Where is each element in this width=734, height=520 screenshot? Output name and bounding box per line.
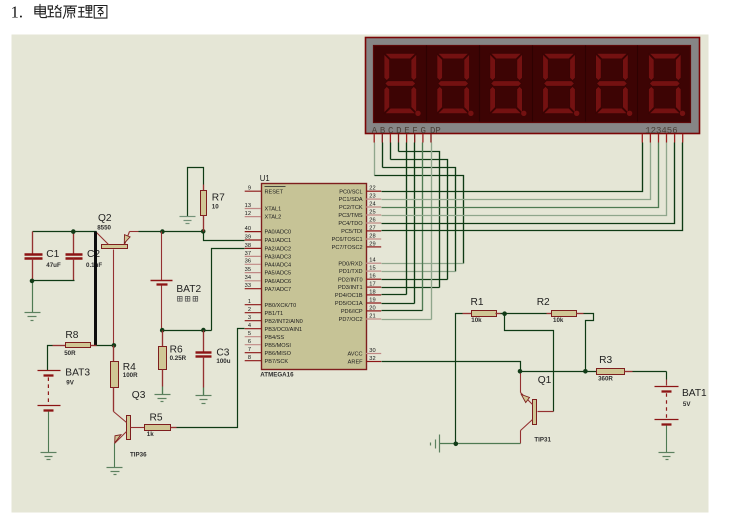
wire: display segment D to MCU PD3 <box>382 143 440 288</box>
svg-text:19: 19 <box>369 297 375 303</box>
ground under BAT1 <box>659 453 675 460</box>
display segment pin labels ABCDEFG DP <box>372 126 441 136</box>
node dot BAT2 top <box>160 229 165 234</box>
svg-text:PA4/ADC4: PA4/ADC4 <box>265 262 292 268</box>
svg-text:0.25R: 0.25R <box>170 355 187 362</box>
svg-text:50R: 50R <box>64 350 76 357</box>
svg-text:PB3/OC0/AIN1: PB3/OC0/AIN1 <box>265 327 303 333</box>
svg-text:1: 1 <box>248 299 251 305</box>
svg-text:RESET: RESET <box>265 189 284 195</box>
U1 RESET overline <box>265 186 286 188</box>
svg-text:R8: R8 <box>65 330 78 341</box>
svg-text:38: 38 <box>245 243 251 249</box>
svg-text:23: 23 <box>369 194 375 200</box>
display cell divider 5 <box>637 46 639 122</box>
ground under R6 <box>155 395 171 402</box>
ground under C3 <box>196 396 212 404</box>
svg-text:XTAL1: XTAL1 <box>265 207 282 213</box>
7-segment digit 6 <box>649 53 686 116</box>
node dot R8/R4/Q2 base <box>112 343 117 348</box>
resistor R6 <box>159 331 167 395</box>
U1 left pin stubs <box>245 191 261 361</box>
node dot BAT2 bottom / R6 top <box>160 328 165 333</box>
svg-text:R5: R5 <box>150 413 163 424</box>
svg-text:9: 9 <box>248 186 251 192</box>
svg-text:C2: C2 <box>87 249 100 260</box>
svg-text:BAT2: BAT2 <box>176 284 201 295</box>
transistor Q1 (NPN TIP31) <box>521 374 537 444</box>
ground under BAT3 <box>41 453 57 460</box>
svg-text:PA3/ADC3: PA3/ADC3 <box>265 255 292 261</box>
svg-text:R1: R1 <box>471 297 484 308</box>
svg-text:PA0/ADC0: PA0/ADC0 <box>265 230 292 236</box>
node dot C2 top on rail <box>71 229 76 234</box>
svg-text:32: 32 <box>369 356 375 362</box>
svg-text:1k: 1k <box>147 431 154 438</box>
svg-text:34: 34 <box>245 275 251 281</box>
svg-text:PC3/TMS: PC3/TMS <box>338 213 363 219</box>
node dot R7 bottom <box>201 229 206 234</box>
svg-text:PB7/SCK: PB7/SCK <box>265 359 289 365</box>
wire: display segment B to MCU PD1 <box>382 143 456 272</box>
U1 right pin stubs <box>366 191 381 361</box>
node dot R2 drop on AREF line <box>583 369 588 374</box>
svg-text:37: 37 <box>245 251 251 257</box>
node dot R1/R2 junction <box>502 311 507 316</box>
svg-text:30: 30 <box>369 348 375 354</box>
svg-text:TIP31: TIP31 <box>534 437 551 444</box>
7-segment digit 2 <box>437 53 474 116</box>
wire: display segment G to MCU PD6 <box>382 143 423 311</box>
svg-text:24: 24 <box>369 201 375 207</box>
svg-text:PB2/INT2/AIN0: PB2/INT2/AIN0 <box>265 319 303 325</box>
display cell divider 2 <box>479 46 481 122</box>
node dot C1 bottom <box>30 279 35 284</box>
svg-text:XTAL2: XTAL2 <box>265 215 282 221</box>
capacitor C3 <box>196 331 212 396</box>
U1 left pin numbers <box>245 186 251 362</box>
node dot ground/R1 riser <box>454 442 459 447</box>
svg-text:18: 18 <box>369 289 375 295</box>
svg-text:35: 35 <box>245 267 251 273</box>
svg-text:PC2/TCK: PC2/TCK <box>339 205 363 211</box>
svg-text:10k: 10k <box>471 317 482 324</box>
svg-text:PA5/ADC5: PA5/ADC5 <box>265 271 292 277</box>
wire: rail jog to MCU pin 39 (PA1) <box>204 232 245 241</box>
7-segment digit 1 <box>384 53 421 116</box>
svg-text:PD6/ICP: PD6/ICP <box>341 309 363 315</box>
transistor Q2 (PNP 8550) <box>97 232 139 346</box>
wire: R8 right to R4/Q2-base node <box>97 345 114 347</box>
ground under C1/C2 <box>25 313 41 321</box>
svg-text:Q2: Q2 <box>98 213 112 224</box>
svg-text:AREF: AREF <box>348 360 364 366</box>
svg-text:25: 25 <box>369 209 375 215</box>
BAT2 value (chinese: lithium battery) <box>178 297 198 302</box>
svg-text:BAT1: BAT1 <box>682 388 707 399</box>
svg-text:28: 28 <box>369 233 375 239</box>
display cell divider 1 <box>426 46 428 122</box>
7-segment digit 3 <box>490 53 527 116</box>
U1 right pin numbers <box>369 186 375 362</box>
svg-text:100R: 100R <box>123 372 138 379</box>
battery BAT3 <box>38 371 61 453</box>
svg-text:8: 8 <box>248 355 251 361</box>
svg-text:13: 13 <box>245 203 251 209</box>
wire: riser from BAT2 node up to MCU pin 38 (PA2) <box>212 249 245 331</box>
wire: left supply rail (C1/C2 top to Q2 collector node) <box>33 231 97 233</box>
U1 right pin names <box>332 189 364 365</box>
7-segment digit 4 <box>543 53 580 116</box>
svg-text:C3: C3 <box>216 347 229 358</box>
R7 top bracket wire to ground <box>188 168 204 217</box>
svg-text:10: 10 <box>212 204 219 211</box>
svg-text:PB0/XCK/T0: PB0/XCK/T0 <box>265 303 297 309</box>
svg-text:ATMEGA16: ATMEGA16 <box>260 372 294 379</box>
resistor R2 <box>505 311 584 317</box>
svg-text:PC5/TDI: PC5/TDI <box>341 229 363 235</box>
7-segment digit 5 <box>596 53 633 116</box>
node dot Q1 emitter on AREF line <box>518 369 523 374</box>
svg-text:R2: R2 <box>537 297 550 308</box>
svg-text:9V: 9V <box>66 380 74 387</box>
svg-text:PB6/MISO: PB6/MISO <box>265 351 292 357</box>
wire: R1 left corner down to ground rail <box>456 314 463 444</box>
display inner dark panel <box>374 46 691 123</box>
resistor R7 <box>201 185 207 232</box>
svg-text:22: 22 <box>369 186 375 192</box>
wire: BAT2 minus node horizontal (to R6, C3, riser) <box>162 330 212 332</box>
svg-text:U1: U1 <box>260 174 270 183</box>
svg-text:10k: 10k <box>553 317 564 324</box>
svg-text:PA1/ADC1: PA1/ADC1 <box>265 238 292 244</box>
svg-text:BAT3: BAT3 <box>65 367 90 378</box>
svg-text:PA2/ADC2: PA2/ADC2 <box>265 247 292 253</box>
7-segment display DISP1 outer frame <box>366 38 700 134</box>
svg-text:5V: 5V <box>683 401 691 408</box>
ground wire bottom right <box>440 443 521 445</box>
wire: display digit pin 4 to MCU PC3 <box>382 143 667 216</box>
svg-text:PD0/RXD: PD0/RXD <box>338 261 362 267</box>
svg-text:PC0/SCL: PC0/SCL <box>339 189 362 195</box>
svg-text:R6: R6 <box>170 344 183 355</box>
display cell divider 4 <box>585 46 587 122</box>
resistor R8 <box>53 343 97 348</box>
wire: display segment F to MCU PD5 <box>382 143 415 304</box>
svg-text:PD5/OC1A: PD5/OC1A <box>335 301 363 307</box>
wire: display digit pin 2 to MCU PC1 <box>382 143 651 200</box>
svg-text:16: 16 <box>369 274 375 280</box>
display cell divider 3 <box>532 46 534 122</box>
svg-text:33: 33 <box>245 283 251 289</box>
svg-text:36: 36 <box>245 259 251 265</box>
title chinese characters 电路原理图 (hand-drawn strokes) <box>35 4 107 18</box>
svg-text:PC6/TOSC1: PC6/TOSC1 <box>332 237 363 243</box>
battery BAT1 <box>655 372 679 453</box>
ground under R7 bracket <box>180 217 196 224</box>
svg-text:AVCC: AVCC <box>347 352 362 358</box>
wire: display segment C to MCU PD2 <box>382 143 448 280</box>
wire: display digit pin 3 to MCU PC2 <box>382 143 659 208</box>
svg-text:R4: R4 <box>123 362 136 373</box>
resistor R3 <box>597 369 667 375</box>
svg-text:Q1: Q1 <box>538 375 552 386</box>
svg-text:20: 20 <box>369 305 375 311</box>
display segment pin stubs <box>374 134 431 143</box>
svg-text:PA6/ADC6: PA6/ADC6 <box>265 279 292 285</box>
MCU U1 ATMEGA16 body <box>262 184 367 370</box>
wire: display segment E to MCU PD4 <box>382 143 407 295</box>
svg-text:PD4/OC1B: PD4/OC1B <box>335 293 363 299</box>
svg-text:3: 3 <box>248 315 251 321</box>
svg-text:17: 17 <box>369 282 375 288</box>
svg-text:R7: R7 <box>212 192 225 203</box>
svg-text:26: 26 <box>369 217 375 223</box>
svg-text:PD1/TXD: PD1/TXD <box>339 269 363 275</box>
svg-text:PC7/TOSC2: PC7/TOSC2 <box>332 245 363 251</box>
U1 left pin names <box>265 189 303 364</box>
svg-text:14: 14 <box>369 258 375 264</box>
display digit pin stubs <box>642 134 682 143</box>
capacitor C2 <box>66 232 83 281</box>
svg-text:47uF: 47uF <box>46 262 61 269</box>
wire: display segment DP to MCU PD7 <box>382 143 432 320</box>
resistor R5 <box>145 425 177 431</box>
svg-text:8550: 8550 <box>97 224 111 231</box>
svg-text:PC1/SDA: PC1/SDA <box>339 197 363 203</box>
wire: R2 right jog down to AREF/R3 line <box>584 314 594 372</box>
svg-text:PA7/ADC7: PA7/ADC7 <box>265 287 292 293</box>
wire: AREF (pin32) line to R3 with jog at Q1 <box>382 362 597 372</box>
svg-text:R3: R3 <box>599 355 612 366</box>
wire: Q2 emitter rail to BAT2/R7 node <box>139 231 204 233</box>
svg-text:PB1/T1: PB1/T1 <box>265 311 284 317</box>
battery BAT2 <box>151 232 173 331</box>
capacitor C1 <box>25 232 43 281</box>
svg-text:PB5/MOSI: PB5/MOSI <box>265 343 292 349</box>
svg-text:5: 5 <box>248 331 251 337</box>
svg-text:PB4/SS: PB4/SS <box>265 335 285 341</box>
svg-text:2: 2 <box>248 307 251 313</box>
wire: display segment A to MCU PD0 <box>375 143 464 264</box>
svg-text:7: 7 <box>248 347 251 353</box>
svg-text:6: 6 <box>248 339 251 345</box>
resistor R1 <box>463 311 505 317</box>
svg-text:4: 4 <box>248 323 251 329</box>
svg-text:21: 21 <box>369 313 375 319</box>
svg-text:27: 27 <box>369 225 375 231</box>
wire: display digit pin 5 to MCU PC4 <box>382 143 675 224</box>
svg-text:12: 12 <box>245 211 251 217</box>
svg-text:39: 39 <box>245 234 251 240</box>
svg-text:29: 29 <box>369 241 375 247</box>
svg-text:PC4/TDO: PC4/TDO <box>338 221 363 227</box>
svg-text:PD3/INT1: PD3/INT1 <box>338 285 363 291</box>
svg-text:360R: 360R <box>598 376 613 383</box>
wire: display digit pin 6 to MCU PC5 <box>382 143 683 231</box>
svg-text:Q3: Q3 <box>132 390 146 401</box>
svg-text:TIP36: TIP36 <box>130 452 147 459</box>
wire: R8 left corner to BAT3 <box>48 346 53 371</box>
rotated ground symbol (left-facing) <box>431 435 440 453</box>
resistor R4 <box>111 346 119 412</box>
wire: C1/C2 bottom junction to ground <box>33 259 75 313</box>
wire: R1/R2 junction down to Q1 base <box>505 314 554 412</box>
svg-text:40: 40 <box>245 226 251 232</box>
svg-text:PD7/OC2: PD7/OC2 <box>339 317 363 323</box>
wire: R5 right to MCU pin 4 (PB3) <box>177 329 245 428</box>
node dot C3 top <box>201 328 206 333</box>
ground under Q3 <box>107 468 123 475</box>
svg-text:C1: C1 <box>46 249 59 260</box>
svg-text:15: 15 <box>369 266 375 272</box>
transistor Q3 (PNP TIP36) <box>114 412 145 468</box>
svg-text:1.: 1. <box>11 2 23 21</box>
black bus wire from Q2 collector node down to R8/R4 node <box>94 232 97 346</box>
svg-text:100u: 100u <box>216 358 230 365</box>
wire: display digit pin 1 to MCU PC0 <box>382 143 643 192</box>
svg-text:PD2/INT0: PD2/INT0 <box>338 277 363 283</box>
